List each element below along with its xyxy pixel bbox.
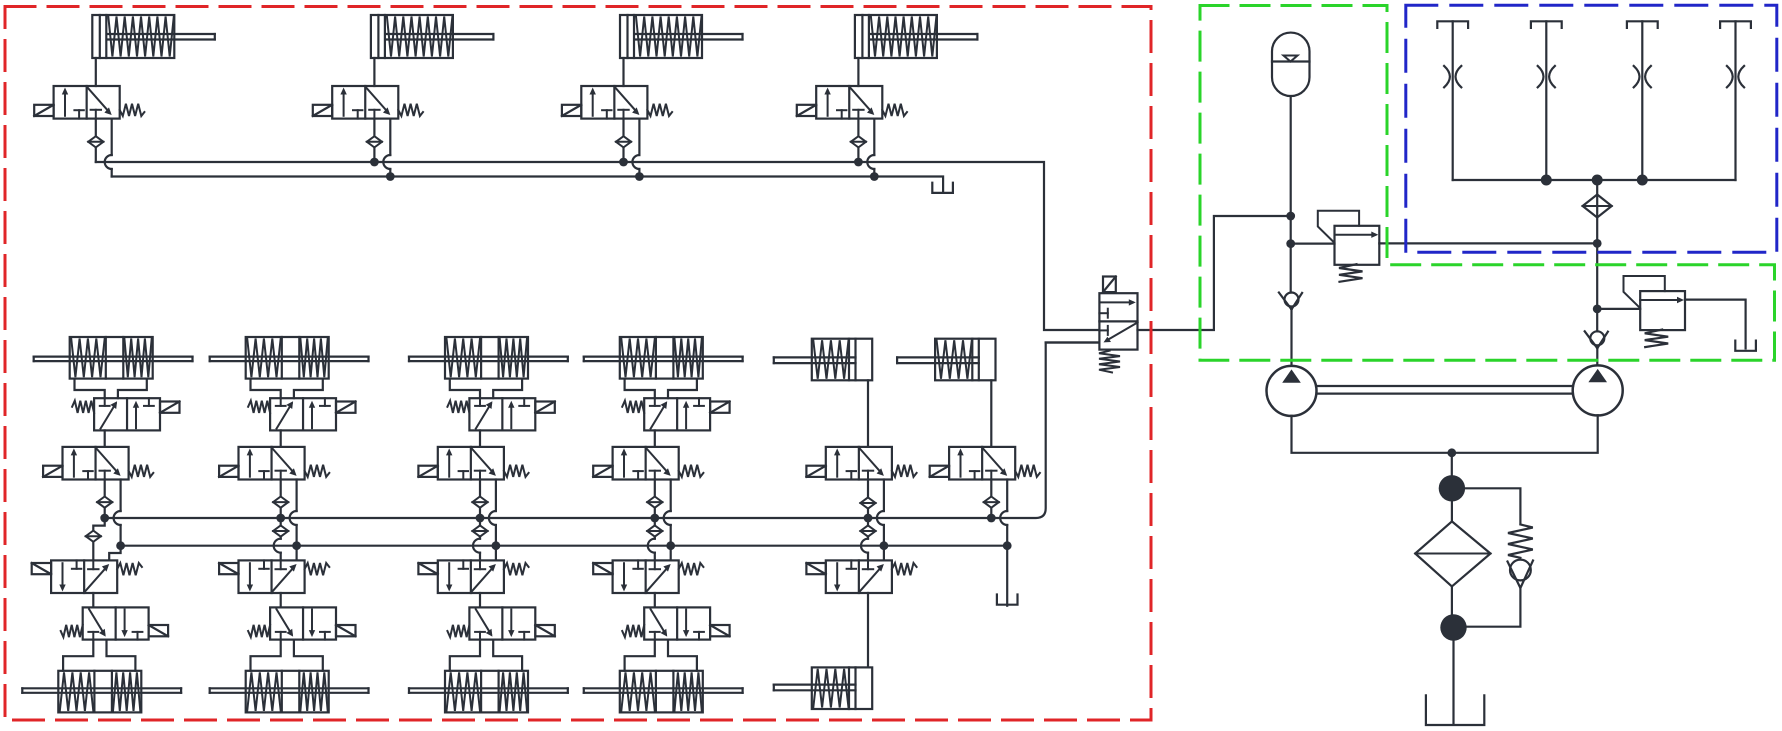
column 3: valve D (3/2, mirrored, solenoid right) [447,607,554,639]
branch 2 fork connector [1531,21,1562,28]
wire: check to pump 2 [1596,349,1598,366]
wire: valve C to valve D [280,593,282,607]
column 3: valve C (3/2, mirrored) [418,560,528,593]
junction on top bus 1 [619,158,628,167]
wire: port A to bus 1 [990,480,992,497]
wire: VT3 port B to exhaust bus (with hop) [638,119,640,155]
wire: valve B port B to bus 2 (hop over bus 1) [119,480,121,512]
relief valve RV1 [1318,211,1380,282]
column 4: double-rod cylinder (lower) [584,671,743,713]
valve E bottom box blocked port [1099,329,1107,331]
wires: cylinder to valve A [450,379,480,399]
filter outlet node [1440,614,1466,640]
column 4: double-rod cylinder (upper) [584,337,743,379]
blue dashed zone: nozzles [1406,5,1777,252]
valve E pilot box [1103,277,1116,293]
wire: bypass to outlet node [1467,588,1521,627]
wires: valve D to lower cylinder [450,640,480,671]
check valve below bus 1 [280,518,282,526]
wires: valve D to lower cylinder [63,640,93,671]
flow divider diamond [1583,195,1612,218]
wire: bus 2 to valve C exhaust port [495,546,497,561]
wires: cylinder to valve A [75,379,105,399]
top exhaust bus (bus 2) [112,177,943,192]
valve VT4 (3/2 solenoid valve) [797,86,907,119]
column 1: double-rod cylinder (lower) [22,671,181,713]
exhaust tank at end of top bus 2 [932,183,953,193]
junction on top bus 2 [635,172,644,181]
valve VT2 (3/2 solenoid valve) [313,86,423,119]
wire: RV1 outlet across to flow-divider line [1379,242,1597,244]
check valve below VT3 [616,136,631,147]
exhaust tank column 6 [997,595,1018,605]
wire: bus 2 to valve C exhaust port [296,546,298,561]
bypass spring [1508,525,1533,558]
branch 4 fork connector [1720,21,1751,28]
junction on bus 2 [292,541,301,550]
pilot check valve above pump 1 [1279,293,1302,310]
junction on top bus 2 [386,172,395,181]
branch 4 restrictor [1727,66,1744,87]
valve E body [1099,293,1137,349]
branch 1 line [1452,21,1454,180]
junction on bus 1 [100,514,109,523]
junction on bus 1 [276,514,285,523]
wire: port A to bus 1 [867,480,869,498]
valve E return spring (below) [1099,351,1120,373]
wire: valve A to valve B [479,430,481,447]
column 3: double-rod cylinder (upper) [409,337,568,379]
wire: valve B port B to bus 2 (hop over bus 1) [296,480,298,512]
branch 1 restrictor [1444,66,1461,87]
main line from manifold to pump 2 [1596,180,1598,331]
wire: RV2 outlet to drain tank [1685,300,1746,349]
wire: bus 2 to valve C exhaust port [109,546,120,561]
column 5: single-acting cylinder (upper, rod left) [774,339,872,381]
pump 1 [1267,366,1317,416]
column 2: valve B (3/2, solenoid left) [219,447,329,480]
wire: valve B port B to bus 2 (hop over bus 1) [670,480,672,512]
green dashed zone: power unit [1200,6,1775,361]
column 4: valve B (3/2, solenoid left) [593,447,703,480]
column 2: double-rod cylinder (lower) [210,671,369,713]
column 1: double-rod cylinder (upper) [34,337,193,379]
cylinder CT2 (single-acting, spring return) [371,15,494,86]
column 1: valve C (3/2, mirrored) [32,560,142,593]
wire: port B to bus 2 (hop over bus 1) [1006,480,1008,512]
wire: VT1 port A to supply bus [95,119,97,136]
junction on top bus 1 [370,158,379,167]
wire: valve A to valve B [104,430,106,447]
suction filter [1415,521,1490,586]
wire: cylinder to valve [990,380,992,447]
wire: VT4 port A to supply bus [857,119,859,136]
column 4: valve D (3/2, mirrored, solenoid right) [622,607,729,639]
column 4: valve C (3/2, mirrored) [593,560,703,593]
cylinder CT1 (single-acting, spring return) [92,15,215,86]
junction on bus 2 [116,541,125,550]
column 2: double-rod cylinder (upper) [210,337,369,379]
branch 2 line [1545,21,1547,180]
junction on bus 2 [880,541,889,550]
valve E bottom box diagonal [1107,323,1138,341]
column 1: valve A (3/2, solenoid right) [72,398,179,430]
wire: tap to RV2 inlet [1597,308,1640,310]
wire: bus 2 to valve C exhaust port [670,546,672,561]
bypass check ball [1510,560,1531,581]
branch 3 restrictor [1634,66,1651,87]
wire: valve A to valve B [280,430,282,447]
wire: valve A to valve B [654,430,656,447]
column 3: valve A (3/2, solenoid right) [447,398,554,430]
branch 2 restrictor [1538,66,1555,87]
drive shaft between pumps [1317,385,1574,387]
junction on bus 1 [650,514,659,523]
lower exhaust bus (bus 2) [121,545,1007,547]
manifold junctions [1541,175,1552,186]
node: RV2 tap [1593,305,1602,314]
wire: VT4 port B to exhaust bus (with hop) [873,119,875,155]
wire: valve B port B to bus 2 (hop over bus 1) [495,480,497,512]
column 3: double-rod cylinder (lower) [409,671,568,713]
column 1: valve D (3/2, mirrored, solenoid right) [61,607,168,639]
wire: VT2 port A to supply bus [373,119,375,136]
column 3: valve B (3/2, solenoid left) [418,447,528,480]
junction on bus 2 [666,541,675,550]
column 4: valve A (3/2, solenoid right) [622,398,729,430]
column 5: valve (3/2, solenoid left) [806,447,916,480]
wire: valve C to valve D [92,593,94,607]
check valve below VT4 [851,136,866,147]
reservoir tank [1426,695,1484,725]
wire: valve B port A to bus 1 [479,480,481,497]
wire: port B to bus 2 (hop over bus 1) [883,480,885,512]
check valve below bus 1 [93,518,104,530]
filter bypass branch [1465,488,1520,523]
wire: cylinder to valve [867,380,869,447]
check valve above bus 1 [97,497,112,508]
wires: valve D to lower cylinder [251,640,281,671]
check valve below VT1 [88,136,103,147]
wire: junction down to filter inlet node [1451,453,1453,476]
wire: tap to RV1 inlet [1291,243,1335,245]
suction line joining both pumps [1292,415,1598,452]
check valve above bus 1 [647,497,662,508]
drain tank RV2 [1735,341,1756,351]
top supply bus (bus 1) [96,162,1100,330]
wires: valve D to lower cylinder [625,640,655,671]
column 2: valve C (3/2, mirrored) [219,560,329,593]
node: relief valve 1 tap [1286,239,1295,248]
junction on bus 1 [987,514,996,523]
valve VT1 (3/2 solenoid valve) [34,86,144,119]
wire: lower valve to lower cylinder [867,593,869,667]
cylinder CT3 (single-acting, spring return) [620,15,743,86]
check valve above bus 1 [472,497,487,508]
junction on bus 1 [864,514,873,523]
wire: valve C to valve D [654,593,656,607]
wire: bus 2 end down to exhaust tank [1006,546,1008,606]
check valve above bus 1 [860,497,875,508]
column 1: valve B (3/2, solenoid left) [43,447,153,480]
ball check valve above pump 2 [1585,331,1608,348]
wire: valve E lower-left port to lower bus [1046,341,1100,343]
wire: VT1 port B to exhaust bus (with hop) [111,119,113,155]
red dashed zone: pneumatic section [5,7,1151,721]
junction on bus 1 [476,514,485,523]
wire: valve B port A to bus 1 [654,480,656,497]
wire: outlet node to reservoir [1452,641,1454,723]
node: flow divider line joins [1593,239,1602,248]
accumulator [1272,33,1310,97]
junction on top bus 2 [870,172,879,181]
branch 4 line [1734,21,1736,180]
wire: bus 2 to lower valve exhaust [883,546,885,561]
wire: node to filter [1451,502,1453,522]
wire: valve E outlet to power unit [1138,216,1287,330]
wire: filter to outlet node [1451,586,1453,614]
junction on top bus 1 [854,158,863,167]
cylinder CT4 (single-acting, spring return) [855,15,978,86]
junction on bus 2 [492,541,501,550]
branch 3 line [1641,21,1643,180]
lower supply bus (bus 1) with corner up to shutoff valve [105,343,1100,519]
junction to filter [1447,448,1456,457]
junction on bus 2 [1003,541,1012,550]
valve E top box flow arrow [1100,301,1132,303]
column 6: valve (3/2, solenoid left) [930,447,1040,480]
wire: valve C to valve D [479,593,481,607]
manifold line [1453,179,1736,181]
wires: cylinder to valve A [251,379,281,399]
valve E top box blocked port [1099,312,1107,314]
check valve below bus 1 [867,518,869,526]
check valve above bus 1 [273,497,288,508]
branch 3 fork connector [1627,21,1658,28]
wire: VT2 port B to exhaust bus (with hop) [389,119,391,155]
wire: valve B port A to bus 1 [104,480,106,497]
column 5: lower valve (3/2, mirrored) [806,560,916,593]
column 2: valve A (3/2, solenoid right) [248,398,355,430]
check valve below bus 1 [654,518,656,526]
column 2: valve D (3/2, mirrored, solenoid right) [248,607,355,639]
column 5: single-acting cylinder (lower, rod left) [774,667,872,709]
node: accumulator / valve E tap [1286,212,1295,221]
branch 1 fork connector [1437,21,1468,28]
wire: valve B port A to bus 1 [280,480,282,497]
wire: VT3 port A to supply bus [622,119,624,136]
filter inlet node [1439,475,1465,501]
check valve below VT2 [367,136,382,147]
pump 2 [1573,365,1623,415]
column 6: single-acting cylinder (rod left) [897,339,995,381]
check valve below bus 1 [479,518,481,526]
wire: accumulator to pump 1 line [1290,96,1292,293]
wires: cylinder to valve A [625,379,655,399]
valve VT3 (3/2 solenoid valve) [562,86,672,119]
wire: check valve to pump 1 [1290,310,1292,366]
check valve above bus 1 [984,497,999,508]
relief valve RV2 [1624,276,1686,347]
